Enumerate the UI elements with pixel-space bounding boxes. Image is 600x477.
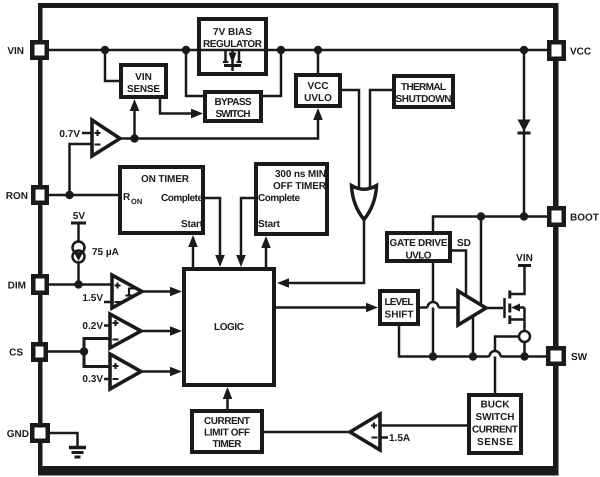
svg-text:SWITCH: SWITCH (216, 109, 251, 120)
svg-text:VIN: VIN (516, 253, 533, 264)
svg-text:DIM: DIM (8, 281, 26, 292)
svg-text:0.3V: 0.3V (82, 374, 103, 385)
svg-text:VCC: VCC (307, 81, 328, 92)
svg-text:TIMER: TIMER (213, 439, 243, 450)
svg-text:GATE DRIVE: GATE DRIVE (390, 238, 448, 249)
svg-text:SENSE: SENSE (127, 84, 160, 95)
svg-text:THERMAL: THERMAL (401, 82, 446, 93)
svg-text:LOGIC: LOGIC (214, 322, 244, 333)
svg-text:UVLO: UVLO (406, 251, 432, 262)
svg-text:REGULATOR: REGULATOR (203, 39, 263, 50)
svg-text:1.5V: 1.5V (82, 293, 103, 304)
svg-text:ON TIMER: ON TIMER (141, 174, 190, 185)
svg-text:CS: CS (9, 348, 23, 359)
svg-text:SHUTDOWN: SHUTDOWN (396, 94, 452, 105)
svg-text:OFF TIMER: OFF TIMER (273, 181, 327, 192)
svg-text:VIN: VIN (7, 46, 24, 57)
svg-text:UVLO: UVLO (304, 93, 332, 104)
svg-text:CURRENT: CURRENT (204, 416, 250, 427)
svg-text:LEVEL: LEVEL (385, 297, 414, 308)
svg-text:RON: RON (6, 191, 28, 202)
svg-text:SWITCH: SWITCH (476, 412, 515, 423)
svg-text:Start: Start (181, 219, 204, 230)
svg-text:VIN: VIN (135, 72, 152, 83)
svg-text:SW: SW (571, 352, 588, 363)
svg-text:Complete: Complete (161, 193, 203, 204)
svg-text:BOOT: BOOT (570, 213, 599, 224)
svg-text:ON: ON (131, 197, 142, 206)
svg-text:SD: SD (457, 238, 471, 249)
svg-text:BUCK: BUCK (481, 400, 511, 411)
svg-text:5V: 5V (73, 211, 86, 222)
svg-text:Complete: Complete (258, 193, 300, 204)
svg-text:R: R (123, 192, 131, 203)
svg-text:300 ns MIN: 300 ns MIN (275, 169, 326, 180)
svg-text:0.2V: 0.2V (82, 321, 103, 332)
svg-text:SHIFT: SHIFT (385, 310, 414, 321)
svg-text:Start: Start (258, 219, 281, 230)
svg-text:VCC: VCC (570, 47, 591, 58)
svg-text:75 µA: 75 µA (92, 247, 119, 258)
svg-text:GND: GND (7, 429, 29, 440)
svg-text:7V BIAS: 7V BIAS (213, 27, 252, 38)
svg-text:BYPASS: BYPASS (215, 97, 252, 108)
svg-text:0.7V: 0.7V (59, 129, 80, 140)
svg-text:CURRENT: CURRENT (472, 425, 518, 436)
svg-text:LIMIT OFF: LIMIT OFF (204, 428, 250, 439)
svg-text:SENSE: SENSE (477, 437, 513, 448)
svg-text:1.5A: 1.5A (389, 433, 410, 444)
